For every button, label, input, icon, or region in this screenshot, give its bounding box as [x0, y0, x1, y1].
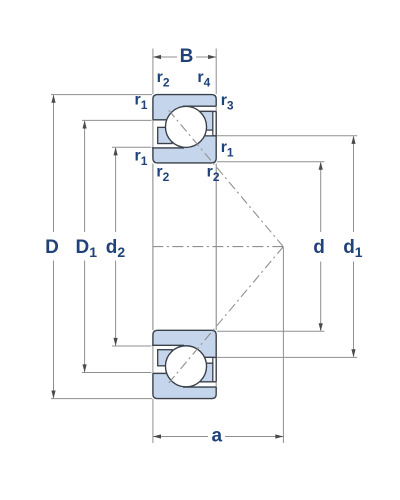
d1 bottom extension	[217, 356, 357, 358]
d1 top extension	[217, 135, 357, 137]
svg-text:d1: d1	[343, 237, 363, 260]
svg-text:a: a	[212, 425, 223, 446]
svg-text:r1: r1	[221, 139, 234, 160]
d bottom extension	[217, 330, 325, 332]
left face between sections	[152, 164, 154, 330]
d top arrow	[319, 162, 323, 170]
d bottom arrow	[319, 323, 323, 331]
svg-text:r1: r1	[135, 148, 148, 169]
contact angle line bottom	[169, 247, 283, 383]
d2 bottom extension	[112, 345, 152, 347]
a extension right (apex)	[282, 247, 284, 443]
B left arrow	[153, 55, 161, 59]
svg-text:B: B	[180, 46, 194, 67]
a right arrow	[275, 434, 283, 438]
right face between sections	[215, 164, 217, 330]
d2 dimension line	[115, 148, 117, 345]
svg-text:D1: D1	[76, 237, 98, 260]
D dimension line	[53, 95, 55, 398]
D bottom arrow	[51, 391, 55, 399]
D bottom extension	[51, 398, 152, 400]
d dimension line	[320, 163, 322, 331]
bearing section bottom (mirrored copy)	[151, 330, 218, 398]
d1 bottom arrow	[351, 349, 355, 357]
B extension right	[215, 49, 217, 95]
d2 top extension	[112, 146, 152, 148]
svg-text:d2: d2	[106, 237, 126, 260]
B right arrow	[208, 55, 216, 59]
svg-text:r2: r2	[157, 69, 170, 90]
B extension left	[152, 49, 154, 95]
svg-text:r4: r4	[197, 69, 210, 90]
bearing section top	[151, 95, 218, 163]
contact angle line top	[169, 110, 283, 246]
D1 top arrow	[83, 120, 87, 128]
a dimension line	[153, 436, 284, 438]
svg-text:r2: r2	[156, 164, 169, 185]
D1 bottom extension	[82, 372, 152, 374]
a left arrow	[153, 434, 161, 438]
horizontal centerline	[153, 246, 284, 248]
d2 bottom arrow	[114, 338, 118, 346]
D top extension	[51, 94, 152, 96]
svg-text:r3: r3	[221, 92, 234, 113]
d2 top arrow	[114, 147, 118, 155]
svg-text:d: d	[313, 237, 325, 258]
D1 dimension line	[84, 121, 86, 372]
d1 top arrow	[351, 136, 355, 144]
svg-text:D: D	[45, 237, 59, 258]
B dimension line	[153, 56, 216, 58]
D1 top extension	[82, 119, 152, 121]
d top extension	[217, 161, 325, 163]
a extension left	[152, 399, 154, 443]
D top arrow	[51, 95, 55, 103]
D1 bottom arrow	[83, 364, 87, 372]
d1 dimension line	[353, 137, 355, 357]
svg-text:r2: r2	[207, 164, 220, 185]
